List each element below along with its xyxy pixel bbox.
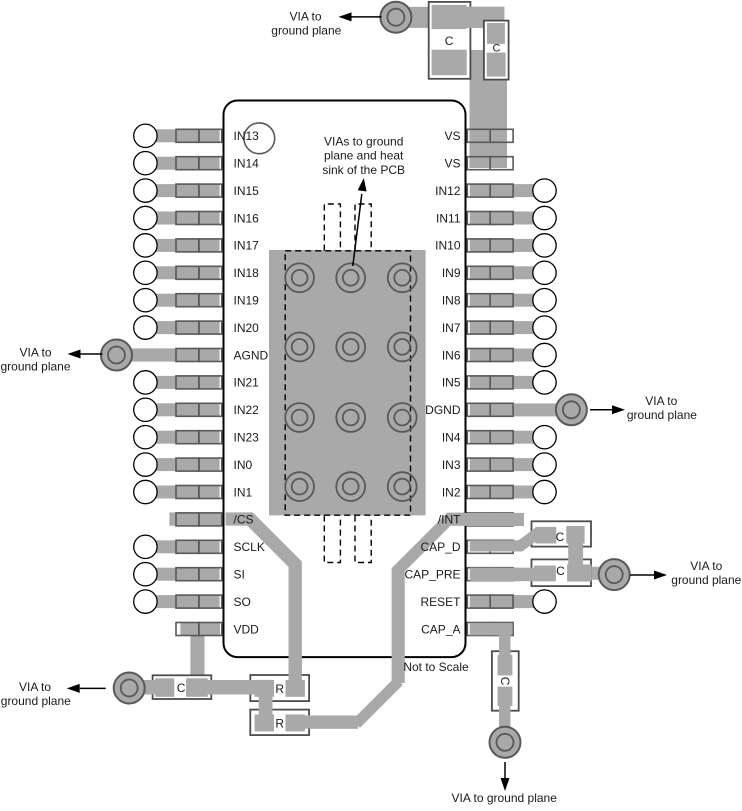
- pin pad IN3: [467, 458, 513, 471]
- thermal via 10: [285, 472, 314, 501]
- wire: left trace row IN15: [145, 184, 220, 197]
- pin pad IN21: [176, 376, 222, 389]
- pin pad IN11: [467, 212, 513, 225]
- through-hole pad IN12: [533, 179, 556, 202]
- pin pad IN9: [467, 266, 513, 279]
- svg-text:IN14: IN14: [234, 157, 260, 171]
- svg-text:SI: SI: [234, 568, 245, 582]
- wire: /INT stub right: [464, 513, 524, 526]
- through-hole pad IN11: [533, 206, 556, 229]
- svg-text:IN17: IN17: [234, 239, 260, 253]
- svg-text:IN18: IN18: [234, 266, 260, 280]
- svg-text:Not to Scale: Not to Scale: [403, 660, 469, 674]
- thermal via 3: [388, 263, 417, 292]
- wire: CAP_A pad bar: [470, 623, 512, 635]
- pin pad IN23: [176, 431, 222, 444]
- through-hole pad IN18: [134, 261, 157, 284]
- pin pad IN4: [467, 431, 513, 444]
- through-hole pad IN21: [134, 371, 157, 394]
- through-hole pad IN9: [533, 261, 556, 284]
- wire: CAP_D diagonal into cap: [518, 532, 539, 546]
- pin pad IN13: [176, 129, 222, 142]
- via: top ground-plane via: [380, 2, 411, 33]
- svg-text:/CS: /CS: [234, 513, 254, 527]
- wire: CAP_PRE right pad to via: [567, 564, 591, 581]
- pin pad IN20: [176, 321, 222, 334]
- wire: /CS trace into R1 right pad: [289, 655, 302, 695]
- wire: left trace row IN19: [145, 294, 220, 307]
- dashed pin tab top 2: [355, 204, 371, 251]
- svg-text:RESET: RESET: [420, 595, 461, 609]
- wire: AGND trace to via: [116, 348, 220, 361]
- svg-text:IN1: IN1: [234, 485, 253, 499]
- thermal pad copper: [269, 250, 426, 515]
- svg-text:IN19: IN19: [234, 294, 260, 308]
- pin pad IN14: [176, 157, 222, 170]
- wire: left trace row SO: [145, 595, 220, 608]
- pin pad /INT: [467, 513, 513, 526]
- thermal via 7: [285, 403, 314, 432]
- pin pad IN0: [176, 458, 222, 471]
- svg-text:IN7: IN7: [442, 321, 461, 335]
- svg-text:R: R: [275, 716, 284, 730]
- wire: CAP_PRE trace to cap: [470, 568, 520, 582]
- wire: VDD pad bar: [180, 623, 220, 635]
- arrow to top via text: [339, 12, 382, 21]
- pin pad SO: [176, 595, 222, 608]
- svg-text:IN16: IN16: [234, 211, 260, 225]
- wire: right trace row IN4: [470, 431, 545, 444]
- pin pad IN15: [176, 184, 222, 197]
- svg-text:IN22: IN22: [234, 403, 260, 417]
- through-hole pad SI: [134, 563, 157, 586]
- thermal via 2: [336, 263, 365, 292]
- capacitor C on CAP_PRE: [532, 559, 592, 586]
- wire: left trace row SCLK: [145, 540, 220, 553]
- svg-text:IN2: IN2: [442, 485, 461, 499]
- wire: bottom-left horizontal trace C to R1: [186, 680, 274, 695]
- svg-text:IN21: IN21: [234, 376, 260, 390]
- pin pad SI: [176, 568, 222, 581]
- wire: right trace row IN3: [470, 458, 545, 471]
- pin pad IN18: [176, 266, 222, 279]
- svg-text:AGND: AGND: [234, 348, 269, 362]
- pin pad IN2: [467, 486, 513, 499]
- pin pad IN5: [467, 376, 513, 389]
- IC package body: [224, 101, 466, 658]
- through-hole pad IN5: [533, 371, 556, 394]
- thermal via 9: [388, 403, 417, 432]
- pin pad CAP_PRE: [467, 568, 513, 581]
- through-hole pad IN3: [533, 453, 556, 476]
- svg-text:VS: VS: [444, 129, 460, 143]
- wire: right trace row IN6: [470, 349, 545, 362]
- svg-text:ground plane: ground plane: [0, 359, 70, 373]
- svg-text:IN13: IN13: [234, 129, 260, 143]
- via: AGND ground-plane via: [101, 340, 132, 371]
- svg-text:CAP_A: CAP_A: [421, 622, 460, 636]
- svg-text:IN4: IN4: [442, 431, 461, 445]
- svg-text:VIA to ground plane: VIA to ground plane: [451, 791, 557, 805]
- svg-text:C: C: [445, 34, 454, 48]
- through-hole pad IN19: [134, 289, 157, 312]
- through-hole pad IN7: [533, 316, 556, 339]
- through-hole pad SO: [134, 590, 157, 613]
- capacitor C on CAP_D: [532, 521, 592, 546]
- svg-text:VIA to: VIA to: [645, 394, 677, 408]
- svg-text:ground plane: ground plane: [271, 23, 341, 37]
- wire: R2 right pad trace: [287, 716, 358, 729]
- wire: left trace row IN14: [145, 157, 220, 170]
- arrow to AGND via text: [68, 350, 103, 359]
- arrow to bottom via text: [501, 762, 510, 791]
- svg-text:SO: SO: [234, 595, 251, 609]
- svg-text:C: C: [493, 43, 501, 55]
- svg-text:IN8: IN8: [442, 294, 461, 308]
- svg-text:C: C: [556, 564, 565, 578]
- through-hole pad IN14: [134, 152, 157, 175]
- wire: left trace row IN23: [145, 431, 220, 444]
- resistor R2: [250, 710, 309, 736]
- pin pad IN6: [467, 349, 513, 362]
- wire: right trace row RESET: [470, 595, 545, 608]
- through-hole pad IN13: [134, 124, 157, 147]
- through-hole pad IN4: [533, 426, 556, 449]
- svg-text:IN0: IN0: [234, 458, 253, 472]
- resistor R1: [250, 675, 309, 701]
- svg-text:SCLK: SCLK: [234, 540, 265, 554]
- wire: left trace row IN13: [145, 129, 220, 142]
- pin pad IN12: [467, 184, 513, 197]
- pin pad DGND: [467, 403, 513, 416]
- wire: right trace row IN7: [470, 321, 545, 334]
- pin pad IN19: [176, 294, 222, 307]
- arrow from thermal vias to label: [353, 194, 362, 266]
- pin pad AGND: [176, 349, 222, 362]
- pin pad CAP_D: [467, 540, 513, 553]
- via: CAP_A ground-plane via: [490, 727, 521, 758]
- svg-text:VDD: VDD: [234, 622, 260, 636]
- wire: cap to bottom via: [499, 700, 511, 730]
- wire: left trace row IN22: [145, 403, 220, 416]
- svg-text:VIA to: VIA to: [19, 680, 51, 694]
- svg-text:CAP_D: CAP_D: [420, 540, 460, 554]
- pin pad IN8: [467, 294, 513, 307]
- svg-text:CAP_PRE: CAP_PRE: [404, 568, 460, 582]
- arrow to CAP_PRE via text: [630, 571, 667, 580]
- wire: left trace row IN1: [145, 486, 220, 499]
- through-hole pad RESET: [533, 590, 556, 613]
- svg-text:C: C: [177, 681, 186, 695]
- svg-text:IN11: IN11: [436, 211, 461, 225]
- pin pad CAP_A: [467, 623, 513, 636]
- pin pad RESET: [467, 595, 513, 608]
- svg-text:C: C: [556, 530, 565, 544]
- wire: CAP_PRE trace into cap left pad: [514, 568, 556, 582]
- through-hole pad IN17: [134, 234, 157, 257]
- through-hole pad IN10: [533, 234, 556, 257]
- wire: right trace row IN8: [470, 294, 545, 307]
- svg-text:IN20: IN20: [234, 321, 260, 335]
- wire: VDD trace down: [190, 628, 204, 694]
- capacitor C on CAP_A (vertical): [492, 651, 519, 711]
- wire: right trace row IN10: [470, 239, 545, 252]
- svg-text:VS: VS: [444, 157, 460, 171]
- wire: CAP_A trace down: [499, 634, 511, 663]
- through-hole pad IN15: [134, 179, 157, 202]
- wire: left trace row IN18: [145, 266, 220, 279]
- svg-text:R: R: [275, 682, 284, 696]
- through-hole pad SCLK: [134, 535, 157, 558]
- thermal pad package outline (dashed): [285, 251, 410, 515]
- pin pad VS: [467, 157, 513, 170]
- pin pad IN16: [176, 212, 222, 225]
- through-hole pad IN23: [134, 426, 157, 449]
- wire: /INT trace inside IC, down and left to R: [300, 513, 466, 729]
- wire: /CS trace inside IC, down to R: [226, 519, 296, 688]
- svg-text:sink of the PCB: sink of the PCB: [322, 163, 405, 177]
- through-hole pad IN1: [134, 480, 157, 503]
- pin pad VS: [467, 129, 513, 142]
- svg-text:C: C: [498, 677, 512, 686]
- thermal via 12: [388, 472, 417, 501]
- svg-text:VIA to: VIA to: [690, 559, 722, 573]
- through-hole pad IN16: [134, 206, 157, 229]
- via: VDD ground-plane via: [114, 673, 145, 704]
- pin pad /CS: [176, 513, 222, 526]
- svg-text:/INT: /INT: [438, 513, 461, 527]
- svg-text:plane and heat: plane and heat: [324, 149, 404, 163]
- pin 1 indicator circle: [244, 123, 275, 154]
- wire: CAP_D trace to cap: [470, 540, 521, 551]
- thermal via 11: [336, 472, 365, 501]
- svg-text:IN10: IN10: [435, 239, 461, 253]
- svg-text:VIA to: VIA to: [19, 346, 51, 360]
- wire: vertical between CAP_D cap and CAP_PRE cap: [568, 540, 583, 567]
- wire: left trace row IN0: [145, 458, 220, 471]
- thermal via 6: [388, 333, 417, 362]
- svg-text:DGND: DGND: [425, 403, 461, 417]
- wire: right trace row IN12: [470, 184, 545, 197]
- via: CAP_PRE ground-plane via: [599, 559, 630, 590]
- svg-text:IN23: IN23: [234, 431, 260, 445]
- dashed pin tab bottom 1: [324, 516, 340, 563]
- pin pad IN10: [467, 239, 513, 252]
- wire: bottom-left horizontal trace via to C: [125, 680, 174, 695]
- via: DGND ground-plane via: [556, 394, 587, 425]
- svg-text:IN5: IN5: [442, 376, 461, 390]
- capacitor C (top, smaller bypass cap): [484, 21, 509, 80]
- svg-text:ground plane: ground plane: [671, 573, 741, 587]
- wire: top trace from via to caps: [393, 7, 504, 28]
- dashed pin tab bottom 2: [355, 516, 371, 563]
- wire: right trace row IN2: [470, 486, 545, 499]
- svg-text:ground plane: ground plane: [1, 694, 71, 708]
- svg-text:IN12: IN12: [435, 184, 461, 198]
- svg-text:IN9: IN9: [442, 266, 461, 280]
- through-hole pad IN20: [134, 316, 157, 339]
- through-hole pad IN6: [533, 343, 556, 366]
- wire: left trace row IN17: [145, 239, 220, 252]
- pin pad IN1: [176, 486, 222, 499]
- thermal via 5: [336, 333, 365, 362]
- thermal via 8: [336, 403, 365, 432]
- thermal via 1: [285, 263, 314, 292]
- wire: /CS trace (left stub): [169, 512, 224, 525]
- svg-text:VIAs to ground: VIAs to ground: [324, 135, 403, 149]
- pin pad IN17: [176, 239, 222, 252]
- wire: left trace row SI: [145, 568, 220, 581]
- wire: left trace row IN20: [145, 321, 220, 334]
- wire: DGND trace to via: [470, 403, 572, 416]
- through-hole pad IN2: [533, 480, 556, 503]
- svg-text:IN6: IN6: [442, 348, 461, 362]
- through-hole pad IN22: [134, 398, 157, 421]
- arrow to bottom-left via text: [67, 684, 106, 693]
- IC edge over /CS trace: [223, 511, 225, 527]
- capacitor C bottom-left: [153, 675, 212, 699]
- pin pad IN7: [467, 321, 513, 334]
- arrow to DGND via text: [590, 405, 625, 414]
- wire: right trace row IN9: [470, 266, 545, 279]
- wire: right trace row IN5: [470, 376, 545, 389]
- dashed pin tab top 1: [324, 204, 340, 251]
- svg-text:ground plane: ground plane: [627, 408, 697, 422]
- wire: left trace row IN16: [145, 212, 220, 225]
- through-hole pad IN0: [134, 453, 157, 476]
- IC edge over /INT trace: [465, 511, 467, 527]
- wire: top wide vertical trace to VS pins: [470, 50, 508, 168]
- through-hole pad IN8: [533, 289, 556, 312]
- capacitor C (top, larger bypass cap): [429, 2, 505, 79]
- thermal via 4: [285, 333, 314, 362]
- svg-text:VIA to: VIA to: [289, 10, 321, 24]
- svg-text:IN15: IN15: [234, 184, 260, 198]
- pin pad VDD: [176, 623, 222, 636]
- svg-text:IN3: IN3: [442, 458, 461, 472]
- wire: right trace row IN11: [470, 212, 545, 225]
- pin pad SCLK: [176, 540, 222, 553]
- wire: left trace row IN21: [145, 376, 220, 389]
- pin pad IN22: [176, 403, 222, 416]
- wire: connector down to R2 left pad: [259, 690, 273, 729]
